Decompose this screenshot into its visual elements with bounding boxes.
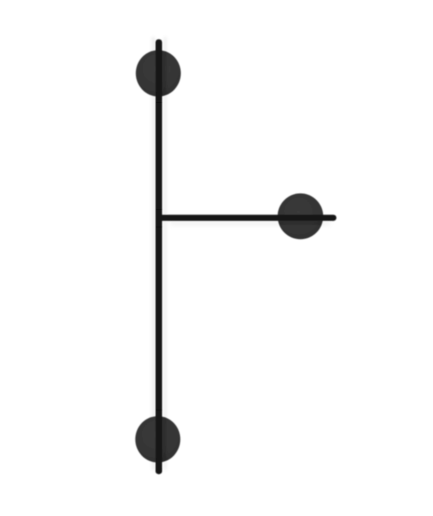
- top disc shade: [136, 50, 181, 97]
- bottom disc shade: [135, 415, 180, 463]
- vertical rod: [156, 39, 163, 474]
- soft wall shadow under horizontal arm: [170, 218, 330, 226]
- rod seam below junction: [156, 226, 163, 227]
- soft wall shadow left of vertical rod: [152, 37, 155, 470]
- soft wall shadow right of vertical rod: [164, 37, 167, 470]
- right disc shade: [277, 193, 324, 239]
- horizontal arm rod: [157, 215, 336, 221]
- rod coupling seam above bottom disc: [156, 409, 163, 412]
- rod seam above junction: [156, 209, 163, 210]
- rod coupling seam below top disc: [156, 97, 163, 100]
